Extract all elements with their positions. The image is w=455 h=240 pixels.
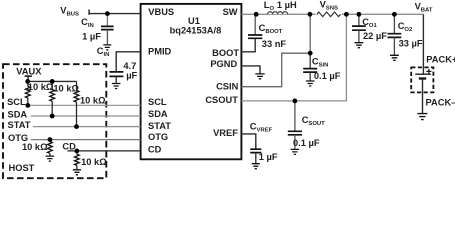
svg-text:CD: CD [148,145,162,155]
svg-text:PACK–: PACK– [426,97,455,107]
svg-text:1 µF: 1 µF [82,31,101,41]
svg-text:0.1 µF: 0.1 µF [293,138,320,148]
svg-text:PGND: PGND [210,59,237,69]
svg-text:0.1 µF: 0.1 µF [314,71,341,81]
svg-text:STAT: STAT [8,120,31,130]
svg-text:HOST: HOST [9,163,35,173]
svg-text:U1: U1 [188,16,200,26]
svg-text:VBUS: VBUS [148,7,174,17]
svg-text:10 kΩ: 10 kΩ [81,157,107,167]
svg-text:bq24153A/8: bq24153A/8 [170,26,222,36]
svg-text:33 µF: 33 µF [399,38,423,48]
svg-text:µF: µF [126,70,137,80]
svg-text:1 µF: 1 µF [259,152,278,162]
svg-text:CD: CD [62,141,76,151]
svg-text:10 kΩ: 10 kΩ [53,84,79,94]
svg-text:OTG: OTG [148,132,168,142]
svg-text:VREF: VREF [213,128,238,138]
svg-text:OTG: OTG [8,133,28,143]
svg-text:SDA: SDA [148,109,168,119]
svg-text:22 µF: 22 µF [363,31,387,41]
svg-text:BOOT: BOOT [212,48,239,58]
svg-text:CSOUT: CSOUT [205,95,238,105]
svg-text:1 µH: 1 µH [277,0,297,10]
svg-text:PACK+: PACK+ [426,54,455,64]
svg-text:10 kΩ: 10 kΩ [80,95,106,105]
svg-text:STAT: STAT [148,121,171,131]
svg-text:SCL: SCL [148,97,167,107]
svg-text:SW: SW [223,7,238,17]
svg-text:SDA: SDA [8,109,28,119]
svg-text:CSIN: CSIN [216,81,238,91]
svg-text:10 kΩ: 10 kΩ [28,82,54,92]
svg-text:PMID: PMID [148,47,172,57]
svg-text:SCL: SCL [7,97,26,107]
svg-text:4.7: 4.7 [123,61,136,71]
svg-text:VAUX: VAUX [16,67,42,77]
svg-text:33 nF: 33 nF [262,39,287,49]
svg-text:10 kΩ: 10 kΩ [22,142,48,152]
